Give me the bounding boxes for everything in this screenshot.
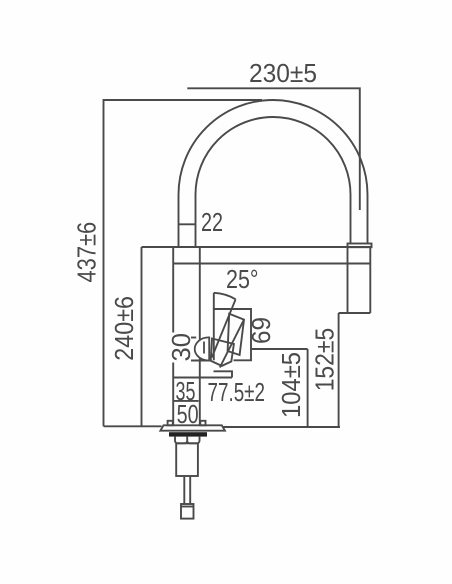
spray head left edge: [347, 247, 349, 313]
22 tick: [179, 223, 196, 225]
right leg inner: [350, 195, 352, 244]
svg-text:152±5: 152±5: [310, 328, 340, 392]
rod left: [183, 476, 185, 504]
right leg outer: [367, 195, 369, 244]
body top long line: [142, 246, 372, 248]
svg-text:104±5: 104±5: [276, 352, 306, 418]
handle long diagonal radius: [212, 299, 236, 357]
svg-text:30: 30: [166, 333, 196, 362]
flange left tab: [168, 421, 173, 426]
handle lever quad: [228, 314, 244, 355]
capsule inner tick: [203, 342, 205, 354]
dim 240±6 line: [141, 247, 143, 426]
column right edge: [199, 247, 201, 425]
handle fan left radius: [213, 293, 215, 309]
handle lever right diagonal: [220, 320, 244, 368]
dim 230±5 line + right extension: [187, 88, 359, 210]
35 line: [173, 377, 232, 379]
30 text halo: [170, 333, 192, 363]
svg-text:22: 22: [201, 207, 223, 237]
mounting nut: [175, 437, 200, 444]
flange right tab: [200, 421, 205, 426]
column left edge: [172, 247, 174, 425]
dim 104±5 line: [307, 349, 309, 427]
handle base pentagon: [211, 339, 234, 366]
rod right: [189, 476, 191, 504]
baseline left segment: [104, 425, 162, 427]
end box inner line: [181, 506, 194, 508]
arch outer arc: [179, 100, 368, 195]
30 tick top: [190, 337, 197, 339]
handle 25° arc: [214, 293, 236, 300]
shank: [176, 443, 198, 476]
gasket dark band: [169, 432, 207, 436]
step under lever: [214, 371, 233, 377]
collar on right leg: [348, 244, 372, 248]
spray bottom + 152 extension: [339, 312, 371, 314]
body lower long line: [173, 263, 370, 265]
spray head right edge: [369, 247, 371, 313]
flange plate: [160, 425, 225, 430]
svg-text:77.5±2: 77.5±2: [208, 377, 266, 407]
50 line: [173, 400, 198, 402]
svg-text:240±6: 240±6: [109, 296, 139, 361]
dim 437±6 line + top extension: [104, 100, 263, 426]
104 extension: [251, 348, 308, 350]
svg-text:437±6: 437±6: [71, 222, 101, 283]
dim 152±5 line: [338, 313, 340, 427]
svg-text:69: 69: [246, 317, 276, 344]
left leg inner: [195, 195, 197, 248]
30 tick bottom: [185, 360, 211, 362]
svg-text:230±5: 230±5: [249, 58, 317, 88]
capsule (handle mount): [195, 337, 210, 360]
svg-text:50: 50: [177, 399, 199, 429]
handle 69 box: [214, 309, 251, 360]
left leg outer: [178, 195, 180, 248]
arch inner arc: [196, 117, 351, 195]
svg-text:25°: 25°: [226, 264, 259, 294]
end box: [181, 504, 194, 519]
baseline right segment: [223, 426, 340, 428]
